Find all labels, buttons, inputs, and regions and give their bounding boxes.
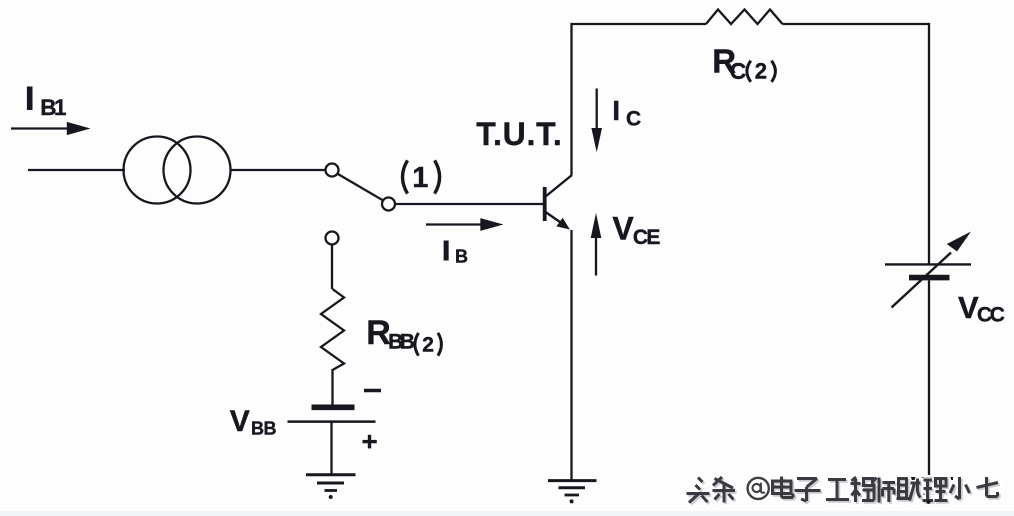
svg-text:T.U.T.: T.U.T.: [476, 116, 562, 152]
svg-text:V: V: [612, 211, 634, 247]
svg-text:I: I: [612, 95, 620, 126]
svg-text:B: B: [455, 247, 468, 267]
svg-text:C: C: [730, 58, 747, 84]
svg-text:I: I: [442, 235, 450, 266]
svg-text:B: B: [264, 419, 277, 439]
svg-text:C: C: [626, 108, 641, 131]
svg-text:1: 1: [412, 162, 428, 194]
svg-text:C: C: [990, 304, 1005, 327]
svg-text:B: B: [251, 419, 264, 439]
svg-text:I: I: [25, 81, 34, 117]
svg-text:E: E: [646, 226, 660, 249]
svg-text:B: B: [400, 331, 415, 354]
svg-text:2: 2: [755, 59, 767, 84]
svg-text:V: V: [958, 290, 979, 325]
svg-text:1: 1: [54, 95, 67, 120]
svg-text:2: 2: [422, 334, 434, 357]
svg-text:V: V: [230, 405, 250, 438]
